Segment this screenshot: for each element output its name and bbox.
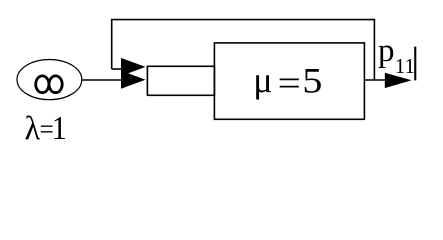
svg-text:λ: λ [25,111,41,148]
svg-text:5: 5 [302,60,322,100]
svg-text:p: p [378,33,395,69]
svg-text:1: 1 [52,110,67,147]
svg-text:11: 11 [395,54,415,78]
svg-text:μ: μ [253,60,272,100]
svg-text:=: = [278,63,301,103]
